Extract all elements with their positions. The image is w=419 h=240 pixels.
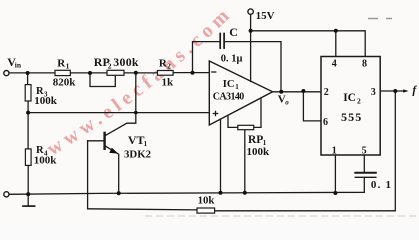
svg-text:RP: RP: [248, 134, 263, 146]
svg-text:1: 1: [66, 62, 70, 71]
svg-text:1k: 1k: [162, 76, 175, 88]
svg-text:0. 1: 0. 1: [371, 179, 392, 191]
svg-text:820k: 820k: [53, 76, 77, 88]
svg-text:10k: 10k: [198, 194, 215, 206]
svg-text:2: 2: [324, 87, 329, 98]
svg-text:3: 3: [371, 87, 376, 98]
svg-text:555: 555: [341, 110, 362, 124]
svg-text:100k: 100k: [246, 146, 270, 158]
svg-text:o: o: [285, 98, 289, 106]
svg-text:IC: IC: [223, 79, 235, 90]
svg-text:C: C: [229, 25, 238, 39]
svg-text:2: 2: [357, 96, 361, 105]
svg-text:8: 8: [362, 59, 367, 70]
svg-text:2: 2: [167, 62, 171, 71]
svg-text:VT: VT: [128, 133, 145, 147]
svg-text:1: 1: [235, 83, 239, 91]
svg-text:4: 4: [332, 59, 337, 70]
svg-text:15V: 15V: [256, 10, 275, 22]
svg-text:2: 2: [108, 61, 112, 70]
svg-text:100k: 100k: [34, 95, 58, 107]
svg-text:1: 1: [332, 145, 337, 156]
svg-text:in: in: [15, 60, 22, 69]
svg-text:6: 6: [323, 117, 328, 128]
svg-text:0. 1μ: 0. 1μ: [221, 53, 243, 64]
svg-text:3DK2: 3DK2: [124, 148, 151, 160]
svg-text:5: 5: [362, 145, 367, 156]
svg-text:1: 1: [144, 140, 148, 148]
svg-text:100k: 100k: [34, 154, 58, 166]
svg-text:IC: IC: [343, 92, 356, 104]
svg-text:300k: 300k: [113, 55, 139, 69]
svg-text:CA3140: CA3140: [213, 92, 244, 103]
